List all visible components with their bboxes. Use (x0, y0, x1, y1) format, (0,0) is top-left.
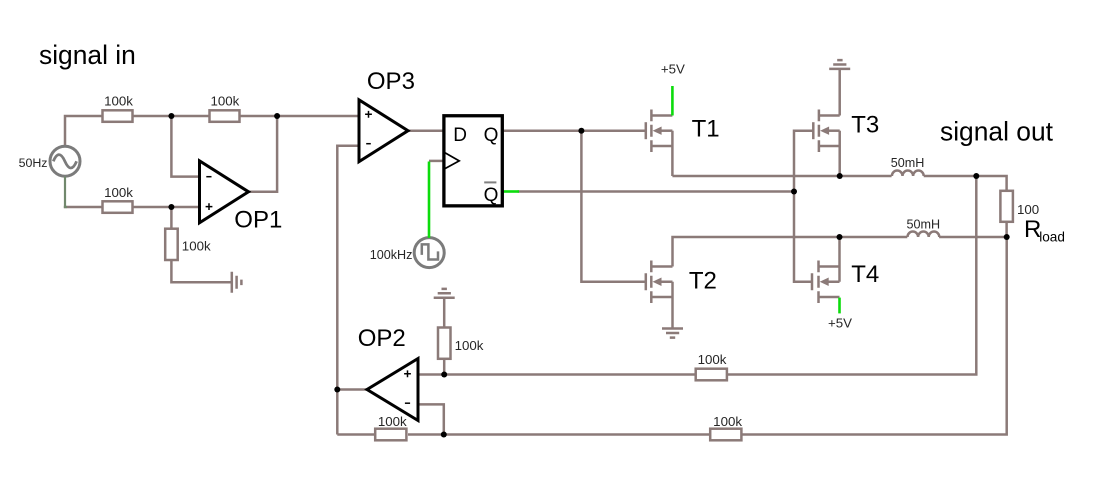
svg-text:100k: 100k (210, 94, 239, 109)
svg-text:100k: 100k (713, 414, 742, 429)
svg-text:100k: 100k (104, 185, 133, 200)
svg-text:signal in: signal in (39, 40, 136, 70)
svg-text:T3: T3 (851, 111, 879, 138)
svg-text:signal out: signal out (940, 117, 1054, 147)
svg-text:50mH: 50mH (891, 156, 925, 170)
svg-text:Q: Q (484, 125, 499, 146)
svg-text:100: 100 (1017, 202, 1039, 217)
svg-text:50mH: 50mH (907, 218, 941, 232)
svg-text:100k: 100k (378, 414, 407, 429)
svg-text:100kHz: 100kHz (370, 248, 413, 262)
svg-text:OP1: OP1 (234, 207, 282, 234)
svg-text:100k: 100k (455, 338, 484, 353)
svg-text:D: D (453, 125, 467, 146)
svg-text:100k: 100k (698, 352, 727, 367)
svg-text:T4: T4 (851, 261, 879, 288)
svg-text:+5V: +5V (828, 316, 852, 331)
svg-text:100k: 100k (182, 239, 211, 254)
svg-text:Q: Q (484, 185, 499, 206)
svg-text:100k: 100k (104, 94, 133, 109)
svg-text:load: load (1039, 229, 1065, 244)
svg-text:50Hz: 50Hz (19, 156, 48, 170)
svg-text:T2: T2 (689, 267, 717, 294)
svg-text:+5V: +5V (661, 62, 685, 77)
svg-text:OP2: OP2 (358, 325, 406, 352)
svg-text:T1: T1 (692, 115, 720, 142)
svg-text:OP3: OP3 (367, 68, 415, 95)
